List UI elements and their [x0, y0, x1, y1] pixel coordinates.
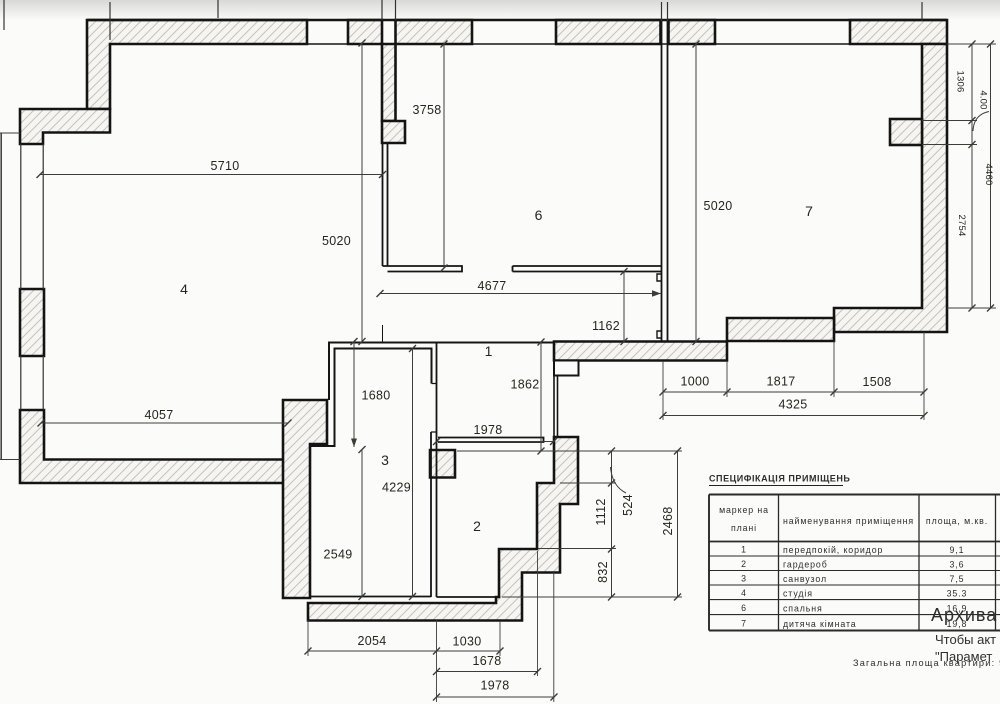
- svg-text:1978: 1978: [480, 679, 509, 693]
- svg-text:524: 524: [621, 494, 635, 516]
- dimension 4325 line: [663, 415, 924, 417]
- door jamb ticks bathroom: [431, 384, 436, 433]
- svg-text:4460: 4460: [983, 164, 994, 186]
- dimension 1678 line: [437, 671, 538, 673]
- wall top band D: [850, 20, 947, 44]
- wall corridor bottom double: [438, 438, 544, 443]
- svg-text:1306: 1306: [955, 71, 966, 93]
- svg-text:9,1: 9,1: [950, 545, 965, 555]
- svg-text:1680: 1680: [361, 389, 390, 403]
- wall bathroom inner top-left: [310, 349, 432, 447]
- svg-text:2754: 2754: [956, 215, 967, 237]
- wall bottom-left corner and room4 bottom band: [20, 410, 285, 483]
- wall bathroom left thick: [283, 400, 327, 598]
- wall right exterior with lower band: [834, 44, 947, 332]
- extension lines: [922, 44, 996, 308]
- svg-text:1817: 1817: [766, 375, 795, 389]
- svg-text:6: 6: [741, 603, 747, 613]
- dimension 1978 bottom line: [437, 696, 555, 698]
- left edge stub: [3, 0, 5, 30]
- svg-text:5020: 5020: [703, 199, 732, 213]
- wall band below room 7 middle step: [727, 318, 834, 341]
- wall room6 bottom: [513, 266, 662, 272]
- svg-text:7: 7: [741, 619, 747, 629]
- svg-text:5020: 5020: [322, 234, 351, 248]
- svg-text:найменування приміщення: найменування приміщення: [783, 516, 914, 526]
- balcony faint ties: [0, 133, 20, 460]
- svg-text:4.00: 4.00: [978, 90, 989, 109]
- svg-text:маркер на: маркер на: [719, 505, 769, 515]
- svg-text:4: 4: [741, 588, 747, 598]
- svg-text:1: 1: [485, 343, 493, 359]
- floor line room3 bottom: [310, 596, 431, 598]
- svg-text:4325: 4325: [778, 398, 807, 412]
- svg-text:2: 2: [473, 518, 481, 534]
- svg-text:1678: 1678: [472, 654, 501, 668]
- dimension 4677 line: [380, 293, 661, 295]
- svg-text:гардероб: гардероб: [783, 560, 828, 570]
- svg-text:3: 3: [741, 574, 747, 584]
- svg-text:1508: 1508: [862, 375, 891, 389]
- dimension 1680 line with arrow: [353, 342, 355, 448]
- svg-text:передпокій, коридор: передпокій, коридор: [783, 545, 883, 555]
- wall top band C (right of slot): [669, 20, 716, 44]
- wall left window block: [20, 289, 44, 356]
- wall bathroom-room2 inner line with door gap: [430, 432, 432, 597]
- table title underline: [709, 485, 843, 487]
- svg-text:832: 832: [596, 561, 610, 583]
- top gray gradient strip: [0, 0, 1000, 20]
- svg-text:санвузол: санвузол: [783, 574, 827, 584]
- wall south-east staircase band: [308, 437, 578, 621]
- wall top band A with left pier: [87, 20, 307, 109]
- balcony edge left outside: [0, 133, 2, 459]
- notch B divider: [657, 331, 662, 338]
- dimension 2549 line: [361, 450, 363, 597]
- corridor left stub: [382, 325, 384, 342]
- wall top band C (left of slot): [556, 20, 661, 44]
- wall top-left corner: [20, 109, 110, 144]
- wall top band B (right of slot): [396, 20, 473, 44]
- wall pier room 7: [890, 119, 922, 145]
- svg-text:6: 6: [535, 207, 543, 223]
- svg-text:Чтобы акт: Чтобы акт: [935, 632, 996, 647]
- svg-text:СПЕЦИФІКАЦІЯ ПРИМІЩЕНЬ: СПЕЦИФІКАЦІЯ ПРИМІЩЕНЬ: [709, 474, 850, 484]
- svg-text:2468: 2468: [661, 506, 675, 535]
- wall top band B (left of slot): [348, 20, 382, 44]
- svg-text:2549: 2549: [323, 548, 352, 562]
- svg-text:3,6: 3,6: [950, 560, 965, 570]
- svg-text:4: 4: [180, 281, 188, 297]
- wall kitchen stack foot: [382, 121, 405, 143]
- window opening jambs top wall: [307, 20, 850, 44]
- svg-text:5710: 5710: [210, 159, 239, 173]
- svg-text:3758: 3758: [412, 103, 441, 117]
- window frame lines left wall: [21, 144, 43, 410]
- dimension 1978 top line: [437, 441, 554, 443]
- dimension 1162 line: [623, 272, 625, 342]
- dimension 3758 line: [443, 44, 445, 268]
- stub lines above top wall: [110, 0, 922, 40]
- wall room3 left inner face: [309, 446, 311, 597]
- dimension 2468 line: [677, 451, 679, 597]
- dimension 1000 1817 1508 line: [663, 391, 924, 393]
- svg-text:3: 3: [381, 452, 389, 468]
- svg-text:спальня: спальня: [783, 604, 823, 614]
- notch A divider: [657, 274, 662, 281]
- dimension 4460 line: [990, 44, 992, 308]
- leader arc 524: [611, 467, 627, 493]
- dimension 4229 line: [412, 349, 414, 597]
- wall thin entry segment: [554, 376, 558, 438]
- dimension 1862 line: [540, 342, 542, 451]
- svg-text:1162: 1162: [592, 319, 620, 333]
- svg-text:7,5: 7,5: [950, 574, 965, 584]
- svg-text:1030: 1030: [452, 635, 481, 649]
- wall corridor top band with block: [554, 342, 727, 361]
- svg-text:1978: 1978: [473, 423, 502, 437]
- svg-text:дитяча кімната: дитяча кімната: [783, 619, 857, 629]
- dimension 5020 right line: [695, 44, 697, 342]
- wall kitchen thin partition: [383, 143, 388, 266]
- svg-text:7: 7: [805, 203, 813, 219]
- svg-text:2054: 2054: [357, 634, 386, 648]
- wire top inner sill line: [110, 43, 922, 45]
- table grid: [709, 495, 1000, 631]
- wire top outer line: [87, 19, 947, 21]
- wall kitchen stack column: [382, 44, 396, 121]
- dimension 5710 line: [40, 174, 383, 176]
- dimension 2054 1030 line: [308, 650, 500, 652]
- svg-text:площа, м.кв.: площа, м.кв.: [926, 516, 988, 526]
- dimension 5020 left line: [361, 43, 363, 342]
- svg-text:1112: 1112: [594, 498, 608, 525]
- svg-text:1: 1: [741, 545, 747, 555]
- svg-text:студія: студія: [783, 589, 813, 599]
- svg-text:35.3: 35.3: [947, 589, 968, 599]
- dimension 524 1112 832 line: [611, 451, 613, 597]
- svg-text:"Парамет: "Парамет: [935, 649, 992, 664]
- svg-text:1000: 1000: [680, 375, 709, 389]
- leader arc 4.00: [973, 112, 989, 132]
- svg-text:2: 2: [741, 559, 747, 569]
- svg-text:плані: плані: [731, 523, 757, 533]
- wall bathroom outer top-left: [329, 343, 554, 401]
- wall kitchen counter return: [383, 266, 463, 272]
- threshold white block below corridor band: [554, 361, 579, 376]
- svg-text:4229: 4229: [382, 481, 411, 495]
- dimension 1306 400 2754 line: [971, 44, 973, 308]
- svg-text:Архива: Архива: [931, 605, 997, 625]
- wall bathroom-room2 outer line: [436, 342, 438, 598]
- svg-text:4677: 4677: [477, 279, 506, 293]
- floor line room2 bottom: [437, 596, 500, 598]
- wall pier room 2: [430, 450, 455, 478]
- dimension 4057 line: [41, 422, 288, 424]
- wall room6-7 divider: [662, 21, 668, 341]
- svg-text:1862: 1862: [510, 378, 539, 392]
- svg-text:4057: 4057: [144, 408, 173, 422]
